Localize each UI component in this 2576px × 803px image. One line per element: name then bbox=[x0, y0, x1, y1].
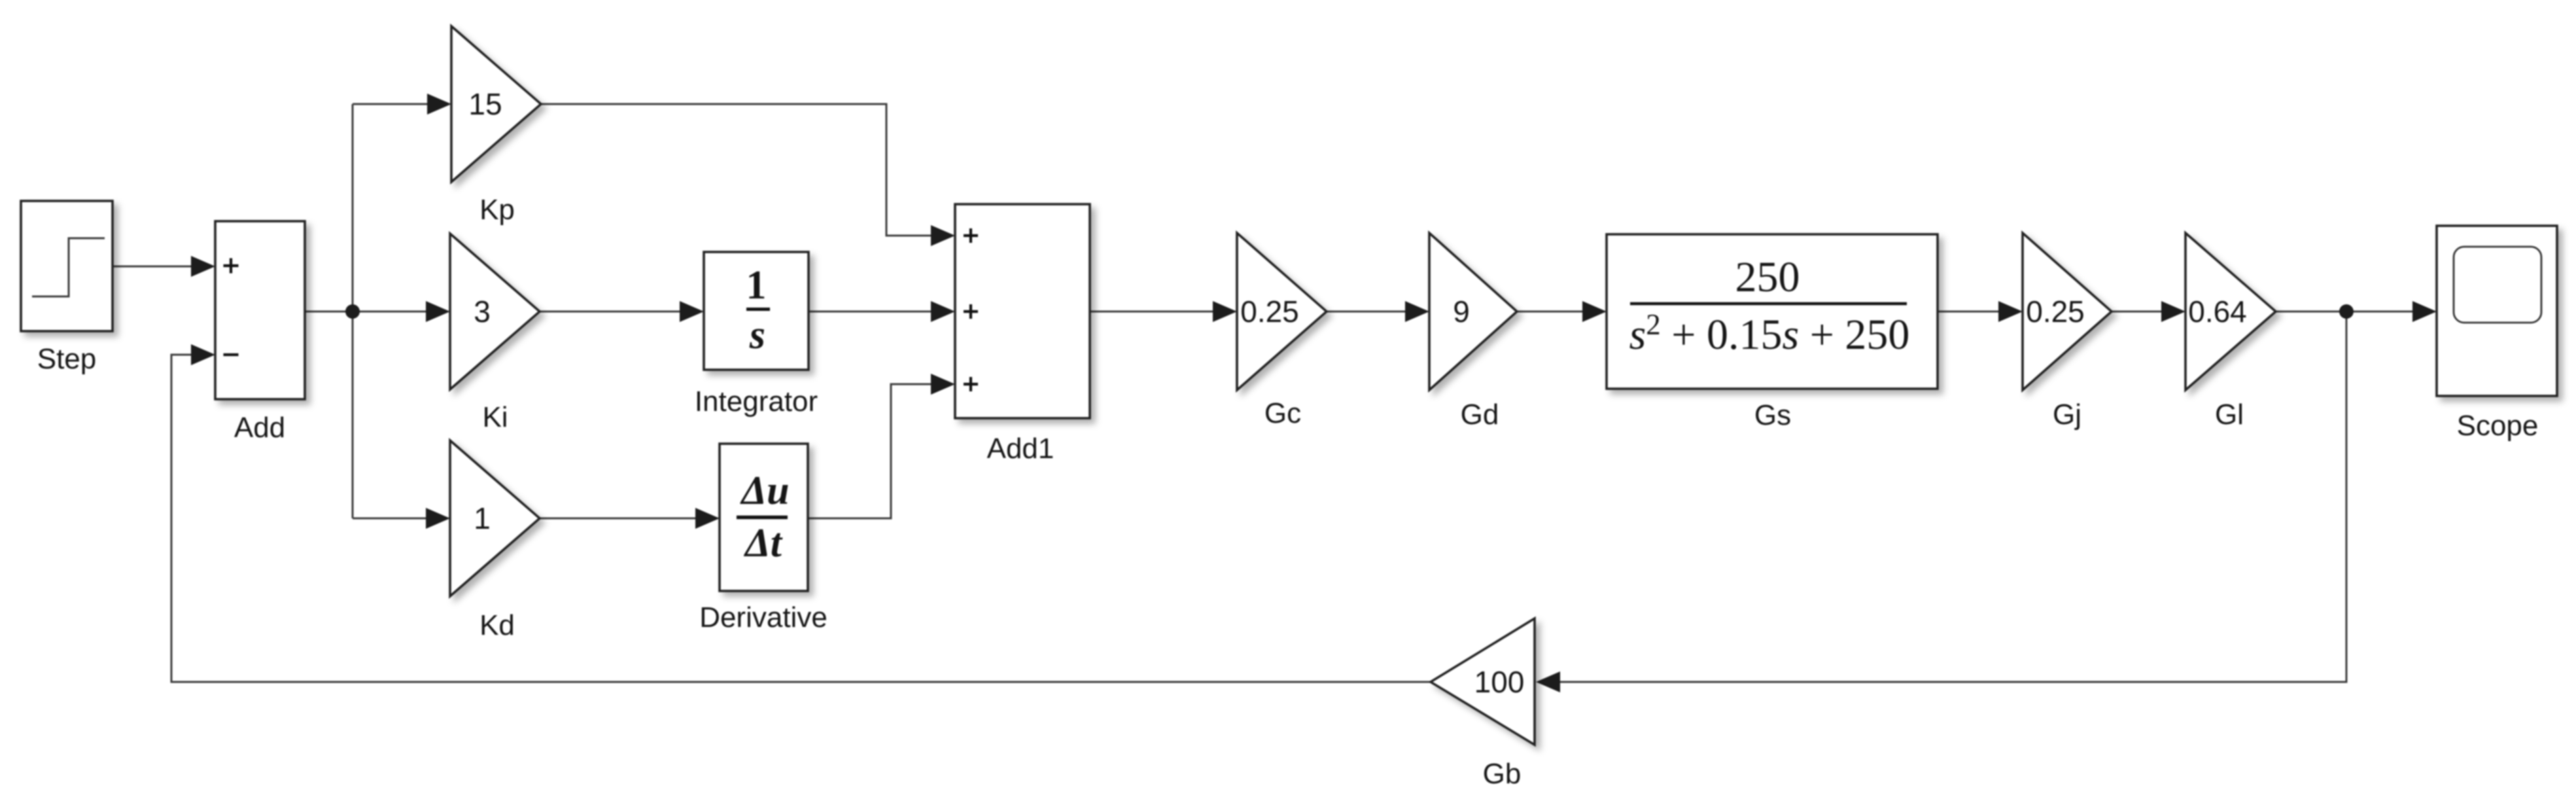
svg-text:Ki: Ki bbox=[482, 401, 508, 433]
svg-text:0.25: 0.25 bbox=[1240, 294, 1299, 329]
svg-text:Kd: Kd bbox=[479, 609, 515, 641]
svg-text:Δu: Δu bbox=[739, 469, 789, 513]
svg-text:1: 1 bbox=[474, 501, 491, 535]
svg-text:s2 + 0.15s + 250: s2 + 0.15s + 250 bbox=[1629, 308, 1910, 359]
svg-text:0.25: 0.25 bbox=[2026, 294, 2085, 329]
svg-text:Step: Step bbox=[37, 343, 97, 375]
svg-text:250: 250 bbox=[1735, 253, 1800, 301]
svg-text:Gj: Gj bbox=[2053, 399, 2081, 431]
svg-text:15: 15 bbox=[468, 87, 502, 121]
svg-text:Gb: Gb bbox=[1483, 758, 1522, 790]
svg-text:Add: Add bbox=[234, 412, 285, 444]
svg-text:Δt: Δt bbox=[743, 521, 783, 565]
svg-text:1: 1 bbox=[746, 263, 767, 308]
svg-text:0.64: 0.64 bbox=[2188, 294, 2247, 329]
svg-text:Derivative: Derivative bbox=[699, 601, 827, 633]
svg-text:Gc: Gc bbox=[1264, 397, 1301, 429]
svg-text:Gl: Gl bbox=[2215, 399, 2244, 431]
svg-text:Scope: Scope bbox=[2457, 410, 2539, 442]
svg-text:9: 9 bbox=[1453, 294, 1470, 329]
svg-text:100: 100 bbox=[1474, 665, 1525, 699]
svg-text:Kp: Kp bbox=[479, 194, 515, 226]
svg-text:Integrator: Integrator bbox=[695, 385, 818, 418]
svg-text:s: s bbox=[749, 313, 765, 357]
svg-text:3: 3 bbox=[474, 294, 491, 329]
svg-text:Add1: Add1 bbox=[987, 433, 1054, 465]
svg-text:Gd: Gd bbox=[1461, 399, 1499, 431]
svg-text:Gs: Gs bbox=[1754, 399, 1791, 431]
